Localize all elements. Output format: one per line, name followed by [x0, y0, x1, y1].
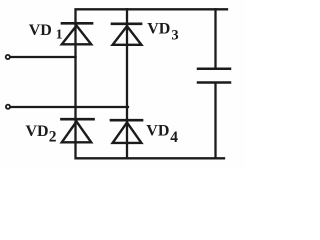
svg-text:VD: VD	[147, 21, 170, 38]
wire input a	[11, 56, 76, 58]
diode VD3 triangle	[113, 26, 142, 45]
terminal input a	[6, 55, 10, 59]
capacitor C top plate	[198, 67, 230, 70]
diode VD3 cathode bar	[112, 22, 141, 25]
diode VD4 cathode bar	[111, 119, 142, 122]
diode VD1 cathode bar	[62, 22, 92, 25]
svg-text:4: 4	[170, 129, 178, 146]
diode VD2 triangle	[62, 122, 91, 143]
wire right bridge rail	[126, 9, 128, 158]
wire input b	[11, 106, 128, 108]
wire left bridge rail lower	[76, 57, 225, 158]
capacitor C bottom plate	[198, 81, 230, 84]
wire top output bus	[76, 9, 228, 57]
capacitor C bottom lead	[214, 84, 216, 158]
diode VD4 triangle	[113, 123, 142, 143]
svg-text:VD: VD	[26, 123, 49, 140]
svg-text:2: 2	[49, 128, 57, 145]
svg-text:3: 3	[171, 27, 178, 43]
capacitor C top lead	[214, 9, 216, 67]
diode VD2 cathode bar	[62, 118, 94, 121]
svg-text:1: 1	[56, 28, 63, 43]
svg-text:VD: VD	[29, 22, 52, 39]
svg-text:VD: VD	[146, 123, 169, 140]
diode VD1 triangle	[62, 26, 91, 45]
terminal input b	[6, 105, 10, 109]
